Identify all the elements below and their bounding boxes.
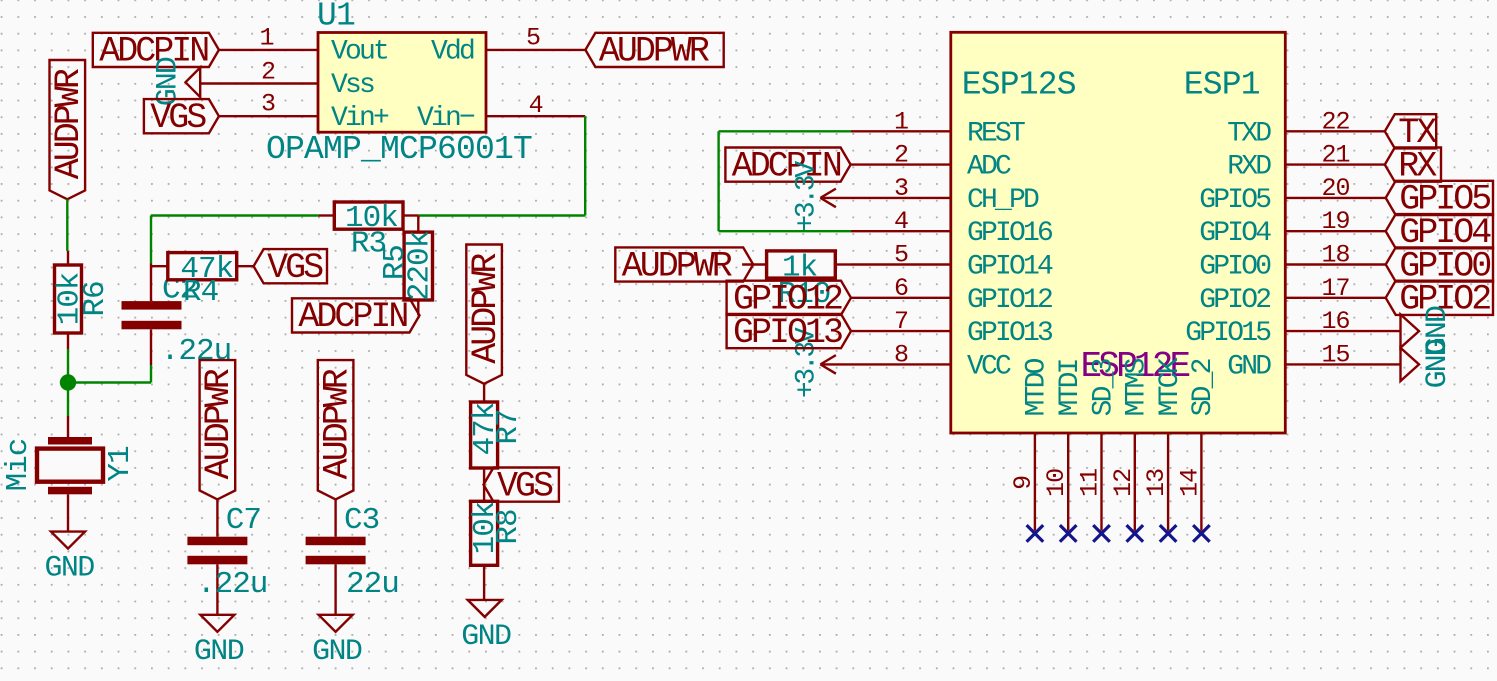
ground (mic) — [51, 532, 85, 549]
wire REST to GPIO16 left — [719, 130, 851, 132]
svg-text:RXD: RXD — [1227, 152, 1271, 183]
wire junction to C2 branch — [68, 381, 151, 383]
global label AUDPWR (C3) — [318, 360, 354, 499]
svg-text:SD_3: SD_3 — [1088, 358, 1119, 416]
pin 6 GPIO12 — [851, 274, 1052, 316]
svg-text:C7: C7 — [226, 503, 261, 538]
pin 10 MTDI — [1042, 359, 1086, 530]
svg-text:Vin−: Vin− — [417, 103, 475, 134]
global label AUDPWR (R7) — [466, 245, 502, 384]
pin 13 MTCK — [1142, 357, 1186, 530]
no-connect pin 14 — [1193, 525, 1210, 542]
pin 16 GPIO15 — [1185, 307, 1400, 349]
pin 4 GPIO16 — [851, 207, 1052, 249]
svg-text:ADCPIN: ADCPIN — [298, 297, 407, 337]
net GND (GPIO15) arrow — [1401, 315, 1420, 348]
svg-text:ADC: ADC — [967, 152, 1011, 183]
svg-text:21: 21 — [1321, 141, 1349, 170]
global label GPIO2 — [1386, 281, 1493, 315]
resistor R8 — [468, 501, 526, 600]
net GND (pin15) arrow — [1401, 348, 1420, 381]
no-connect pin 10 — [1060, 525, 1077, 542]
svg-text:4: 4 — [894, 207, 908, 236]
U1 pin 1 Vout — [219, 23, 387, 67]
no-connect pin 9 — [1027, 525, 1044, 542]
wire junction down to mic — [67, 383, 69, 417]
local label GND (U1 pin2) arrow — [186, 68, 201, 98]
svg-text:3: 3 — [261, 90, 275, 119]
svg-text:AUDPWR: AUDPWR — [466, 253, 506, 364]
pin 20 GPIO5 — [1199, 174, 1385, 216]
svg-text:GPIO0: GPIO0 — [1199, 252, 1271, 283]
svg-text:20: 20 — [1321, 174, 1349, 203]
svg-text:ADCPIN: ADCPIN — [732, 146, 841, 186]
svg-text:12: 12 — [1109, 469, 1138, 497]
global label RX — [1385, 148, 1441, 182]
wire R6 to junction — [67, 349, 69, 383]
pin 12 MTMS — [1109, 358, 1153, 530]
microphone Y1 — [1, 416, 138, 532]
svg-text:.22u: .22u — [197, 567, 267, 602]
wire to GPIO16 — [719, 230, 851, 232]
global label VGS (R7/R8 node) — [484, 468, 559, 502]
svg-text:CH_PD: CH_PD — [967, 185, 1039, 216]
capacitor C3 — [306, 499, 399, 614]
resistor R3 — [319, 201, 419, 262]
global label AUDPWR (C7) — [200, 360, 236, 499]
pin 17 GPIO2 — [1199, 274, 1385, 316]
svg-text:+3.3V: +3.3V — [791, 161, 822, 232]
pin 8 VCC — [820, 340, 1011, 382]
pin 14 SD_2 — [1175, 359, 1219, 530]
svg-text:VGS: VGS — [267, 248, 323, 288]
pin 1 REST — [851, 107, 1025, 149]
global label ADCPIN (ESP ADC) — [725, 148, 850, 182]
svg-text:Vss: Vss — [331, 70, 374, 101]
global label AUDPWR (R10) — [615, 247, 753, 281]
svg-text:GND: GND — [461, 620, 511, 654]
svg-text:AUDPWR: AUDPWR — [599, 32, 710, 72]
svg-text:GPIO14: GPIO14 — [967, 252, 1053, 283]
resistor R4 — [151, 252, 254, 310]
pin 7 GPIO13 — [851, 307, 1053, 349]
svg-text:AUDPWR: AUDPWR — [622, 246, 733, 286]
global label GPIO4 — [1386, 214, 1493, 248]
global label AUDPWR (U1 pin5) — [585, 33, 723, 67]
global label TX — [1385, 114, 1436, 148]
svg-text:13: 13 — [1142, 469, 1171, 497]
svg-text:GPIO4: GPIO4 — [1199, 218, 1271, 249]
svg-text:3: 3 — [894, 174, 908, 203]
svg-text:GND: GND — [312, 635, 362, 669]
U1 pin 2 Vss — [200, 58, 374, 101]
ground (C3) — [319, 615, 353, 632]
U1 pin 5 Vdd — [431, 24, 585, 68]
svg-text:AUDPWR: AUDPWR — [49, 68, 89, 179]
ground (C7) — [200, 615, 234, 632]
svg-text:5: 5 — [526, 24, 540, 53]
wire C2 top to R3 node — [150, 216, 152, 264]
svg-text:REST: REST — [967, 118, 1025, 149]
resistor R5 — [378, 216, 438, 316]
svg-text:14: 14 — [1175, 469, 1204, 497]
svg-text:19: 19 — [1321, 207, 1349, 236]
pin 22 TXD — [1227, 107, 1385, 149]
pin 3 CH_PD — [820, 174, 1039, 216]
svg-text:VGS: VGS — [497, 466, 553, 506]
resistor R6 — [52, 251, 113, 349]
svg-text:GND: GND — [1227, 351, 1271, 382]
capacitor C7 — [187, 499, 267, 614]
no-connect pin 12 — [1127, 525, 1144, 542]
svg-text:R5: R5 — [378, 245, 413, 280]
resistor R10 — [742, 250, 851, 312]
svg-text:6: 6 — [894, 274, 908, 303]
svg-text:AUDPWR: AUDPWR — [317, 368, 357, 479]
svg-text:R4: R4 — [183, 275, 219, 310]
pin 15 GND — [1227, 340, 1400, 382]
svg-text:1: 1 — [259, 23, 273, 52]
svg-text:U1: U1 — [317, 0, 355, 35]
svg-text:Vdd: Vdd — [431, 37, 474, 68]
global label ADCPIN (R5 bottom) — [292, 298, 420, 332]
wire pin4 down — [584, 116, 586, 215]
svg-text:16: 16 — [1321, 307, 1349, 336]
svg-text:18: 18 — [1321, 241, 1349, 270]
junction node — [60, 374, 76, 390]
U1 pin 3 Vin+ — [219, 90, 389, 135]
global label GPIO13 (pin7) — [727, 314, 851, 348]
svg-text:4: 4 — [529, 91, 543, 120]
svg-text:1: 1 — [894, 107, 908, 136]
pin 21 RXD — [1227, 141, 1385, 183]
svg-text:5: 5 — [894, 241, 908, 270]
svg-text:ESP1: ESP1 — [1184, 67, 1260, 104]
global label VGS (U1 pin3) — [144, 99, 219, 133]
no-connect pin 13 — [1160, 525, 1177, 542]
svg-text:15: 15 — [1321, 340, 1349, 369]
svg-text:7: 7 — [894, 307, 908, 336]
svg-text:GND: GND — [1421, 339, 1455, 388]
svg-text:Y1: Y1 — [103, 446, 138, 482]
svg-text:SD_2: SD_2 — [1188, 359, 1219, 416]
svg-text:Mic: Mic — [1, 439, 36, 492]
wire AUDPWR to R6 — [66, 199, 68, 251]
svg-text:R7: R7 — [491, 409, 526, 444]
svg-text:GPIO12: GPIO12 — [967, 285, 1052, 316]
U1 pin 4 Vin- — [417, 91, 585, 134]
svg-text:17: 17 — [1321, 274, 1349, 303]
net +3.3V (CH_PD) arrow — [820, 189, 836, 208]
svg-text:VGS: VGS — [150, 98, 206, 138]
wire vertical — [717, 131, 719, 231]
global label GPIO12 (pin6) — [727, 281, 851, 315]
svg-text:AUDPWR: AUDPWR — [199, 368, 239, 479]
pin 9 MTDO — [1009, 358, 1053, 530]
wire R3 left to C2 node — [151, 214, 319, 216]
svg-text:TXD: TXD — [1227, 118, 1271, 149]
pin 11 SD_3 — [1076, 358, 1120, 530]
svg-text:22: 22 — [1321, 107, 1349, 136]
svg-text:GPIO5: GPIO5 — [1199, 185, 1271, 216]
svg-text:R8: R8 — [491, 509, 526, 544]
global label ADCPIN (U1 pin1) — [93, 33, 219, 67]
global label VGS (R4 right) — [254, 249, 327, 283]
svg-text:GPIO15: GPIO15 — [1185, 318, 1271, 349]
svg-text:22u: 22u — [346, 567, 399, 602]
pin 19 GPIO4 — [1199, 207, 1385, 249]
svg-text:.22u: .22u — [161, 334, 231, 369]
svg-text:GPIO16: GPIO16 — [967, 218, 1052, 249]
wire pin4 corner to R3 — [418, 214, 585, 216]
svg-text:MTCK: MTCK — [1155, 357, 1186, 416]
svg-text:GPIO13: GPIO13 — [733, 313, 842, 353]
pin 18 GPIO0 — [1199, 241, 1385, 283]
svg-text:2: 2 — [894, 141, 908, 170]
svg-text:11: 11 — [1076, 469, 1105, 497]
global label GPIO5 — [1386, 181, 1493, 215]
svg-text:C3: C3 — [344, 503, 379, 538]
IC ESP1 body — [951, 32, 1286, 433]
svg-text:MTDO: MTDO — [1022, 358, 1053, 416]
wire C2 bottom vertical — [150, 365, 152, 383]
svg-text:GND: GND — [194, 635, 244, 669]
svg-text:9: 9 — [1009, 476, 1038, 490]
op-amp U1 body — [318, 33, 486, 133]
capacitor C2 — [122, 264, 232, 370]
svg-text:ESP12S: ESP12S — [962, 67, 1076, 104]
pin 2 ADC — [851, 141, 1011, 183]
global label GPIO0 — [1386, 247, 1493, 281]
ground (R8) — [468, 600, 502, 617]
svg-text:8: 8 — [894, 340, 908, 369]
no-connect pin 11 — [1093, 525, 1110, 542]
svg-text:OPAMP_MCP6001T: OPAMP_MCP6001T — [266, 131, 532, 168]
svg-text:VCC: VCC — [967, 351, 1011, 382]
svg-text:2: 2 — [261, 58, 275, 87]
svg-text:GND: GND — [45, 552, 95, 586]
svg-text:10: 10 — [1042, 469, 1071, 497]
svg-text:Vout: Vout — [331, 37, 387, 68]
global label AUDPWR (left) — [50, 60, 86, 199]
resistor R7 — [468, 384, 526, 502]
svg-text:GPIO2: GPIO2 — [1199, 285, 1270, 316]
svg-text:Vin+: Vin+ — [331, 103, 389, 134]
pin 5 GPIO14 — [851, 241, 1053, 283]
net +3.3V (VCC) arrow — [820, 355, 836, 374]
svg-text:GPIO13: GPIO13 — [967, 318, 1053, 349]
svg-text:MTMS: MTMS — [1122, 358, 1153, 416]
svg-text:MTDI: MTDI — [1055, 359, 1086, 416]
svg-text:R6: R6 — [78, 281, 113, 316]
